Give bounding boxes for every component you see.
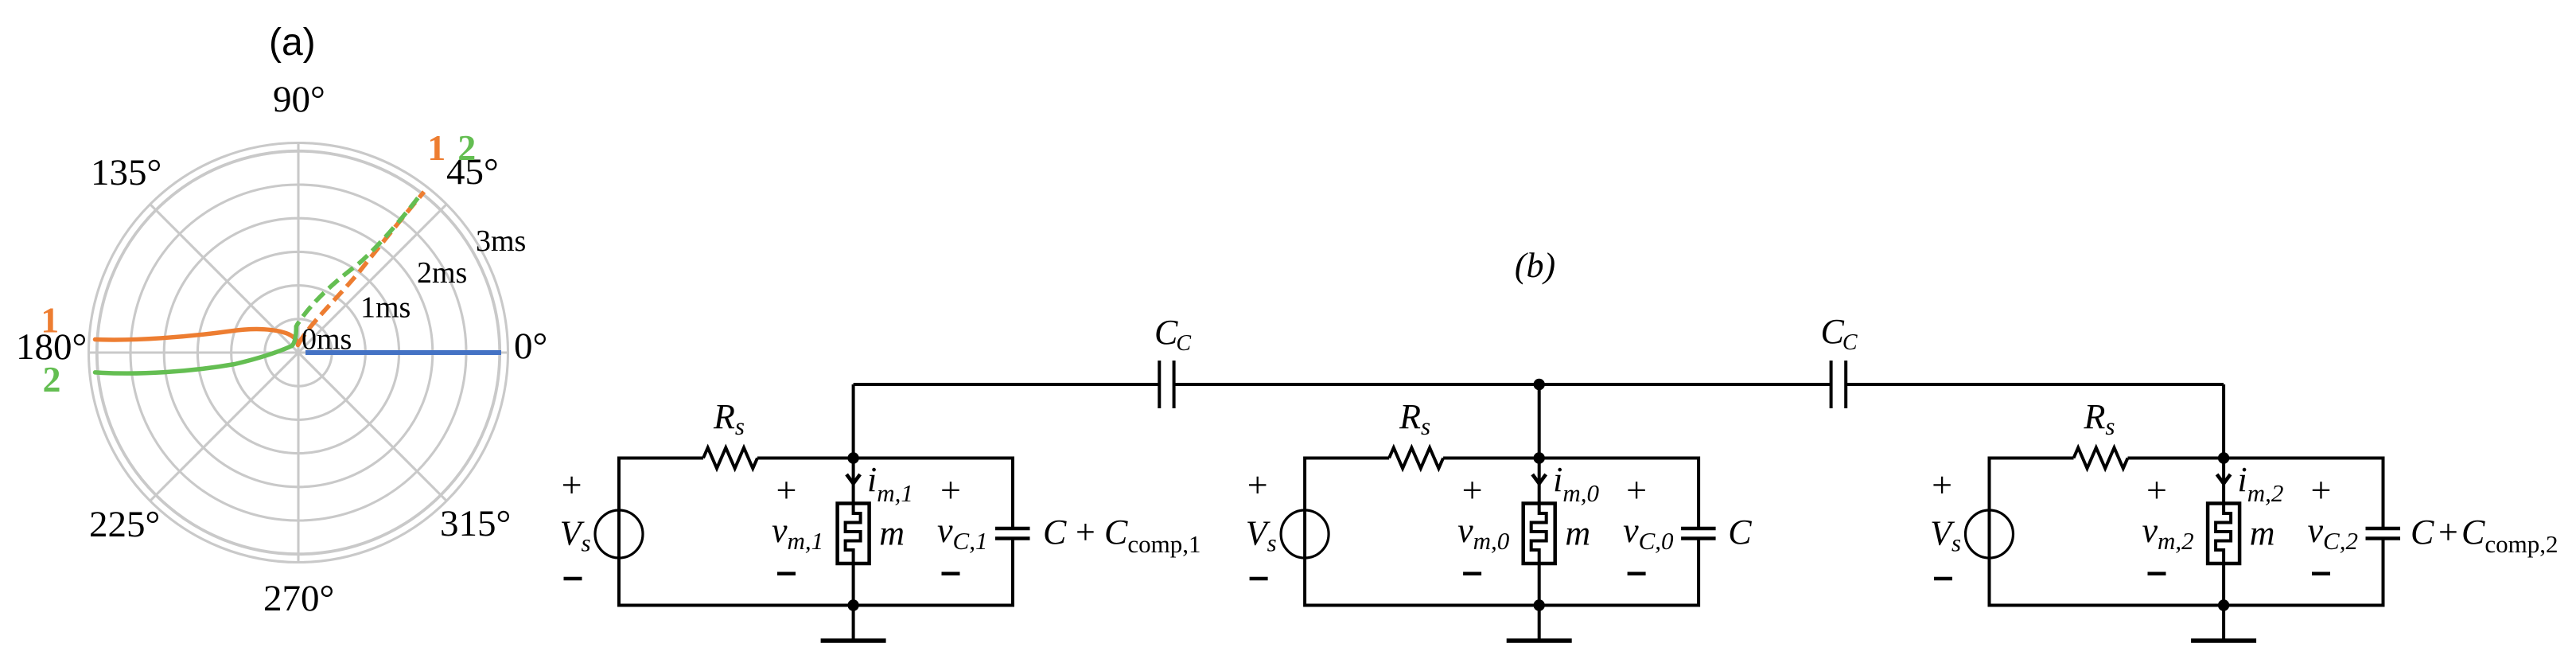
orange solid trajectory curve 1 [95, 329, 298, 345]
wire: memristor top stub circuit 2 [2222, 458, 2225, 505]
svg-text:270°: 270° [263, 578, 334, 619]
svg-text:3ms: 3ms [476, 224, 526, 258]
memristor M body circuit 1 [838, 504, 870, 564]
svg-text:(b): (b) [1515, 246, 1555, 285]
svg-text:225°: 225° [89, 504, 160, 545]
label minus of Vs circuit 0 [1250, 577, 1268, 581]
wire: top rail left segment circuit 1 [619, 457, 703, 460]
junction node dot bottom circuit 1 [847, 599, 858, 610]
wire: capacitor branch top circuit 1 [1011, 457, 1014, 529]
memristor M squiggle circuit 2 [2216, 505, 2231, 562]
wire: bottom rail circuit 2 [1990, 604, 2383, 607]
angle tick labels [16, 79, 547, 619]
radial time tick labels [302, 224, 526, 357]
green solid trajectory curve 2 [95, 326, 297, 373]
label minus of vC,2 [2312, 571, 2330, 575]
wire: memristor bottom stub circuit 1 [852, 563, 855, 606]
wire: top rail left segment circuit 0 [1305, 457, 1389, 460]
wire: memristor top stub circuit 1 [852, 458, 855, 505]
current arrow im,0 [1532, 474, 1546, 484]
coupling capacitor CC right plates [1830, 361, 1833, 408]
svg-text:+: + [1076, 513, 1095, 552]
capacitor plates circuit 2 [2366, 527, 2401, 531]
junction node dot top circuit 2 [2218, 452, 2229, 463]
svg-text:+: + [562, 465, 582, 505]
label minus of vm,2 [2148, 571, 2166, 575]
label minus of vC,1 [942, 571, 960, 575]
svg-text:90°: 90° [273, 79, 325, 120]
junction node dot bottom circuit 0 [1534, 599, 1545, 610]
current arrow im,2 [2217, 474, 2231, 484]
resistor Rs circuit 2 [2074, 448, 2128, 469]
voltage source Vs circuit 0 [1281, 510, 1329, 558]
wire: capacitor branch top circuit 2 [2382, 457, 2385, 529]
orange dashed trajectory curve 1 [298, 192, 425, 345]
wire: coupling drop circuit 1 [852, 384, 855, 458]
svg-text:2ms: 2ms [417, 256, 467, 290]
wire: coupling rail segment 1 [854, 383, 1160, 386]
resistor Rs circuit 0 [1389, 448, 1443, 469]
svg-text:m: m [1565, 513, 1590, 552]
memristor M squiggle circuit 0 [1531, 505, 1547, 562]
svg-text:2: 2 [43, 359, 61, 400]
svg-text:+: + [2311, 470, 2332, 510]
svg-text:1: 1 [427, 127, 446, 168]
voltage source Vs circuit 1 [595, 510, 643, 558]
resistor Rs circuit 1 [703, 448, 757, 469]
svg-text:C: C [1728, 513, 1752, 552]
wire: capacitor branch bottom circuit 1 [1011, 539, 1014, 607]
wire: capacitor branch top circuit 0 [1697, 457, 1700, 529]
svg-text:135°: 135° [91, 152, 161, 193]
svg-text:+: + [1932, 465, 1952, 505]
svg-text:+: + [1626, 470, 1647, 510]
coupling capacitor CC left plates [1158, 361, 1161, 408]
green dashed trajectory curve 2 [297, 193, 422, 326]
junction dot on coupling rail at circuit 0 [1534, 379, 1545, 390]
wire: capacitor branch bottom circuit 2 [2382, 539, 2385, 607]
ground bar circuit 0 [1507, 638, 1572, 643]
wire: top rail right segment circuit 2 [2128, 457, 2383, 460]
ground stub circuit 2 [2222, 606, 2225, 641]
svg-text:+: + [940, 470, 961, 510]
junction node dot bottom circuit 2 [2218, 599, 2229, 610]
svg-text:1ms: 1ms [360, 291, 411, 324]
capacitor plates circuit 0 [1681, 527, 1716, 531]
svg-text:C: C [1043, 513, 1067, 552]
svg-text:2: 2 [457, 127, 476, 168]
wire: top rail right segment circuit 1 [757, 457, 1013, 460]
svg-text:0ms: 0ms [302, 323, 352, 357]
junction node dot top circuit 1 [847, 452, 858, 463]
svg-text:m: m [2250, 513, 2275, 552]
svg-text:1: 1 [41, 299, 59, 340]
capacitor plates circuit 1 [995, 527, 1030, 531]
ground bar circuit 1 [821, 638, 886, 643]
svg-text:(a): (a) [269, 21, 316, 64]
label minus of vC,0 [1628, 571, 1646, 575]
polar grid spokes [89, 143, 508, 563]
label minus of vm,0 [1463, 571, 1481, 575]
polar grid rings [89, 143, 508, 563]
ground stub circuit 0 [1538, 606, 1541, 641]
wire: capacitor branch bottom circuit 0 [1697, 539, 1700, 607]
wire: memristor bottom stub circuit 2 [2222, 563, 2225, 606]
svg-text:C: C [2411, 513, 2434, 552]
label minus of vm,1 [777, 571, 796, 575]
svg-text:m: m [879, 513, 905, 552]
ground stub circuit 1 [852, 606, 855, 641]
svg-text:315°: 315° [440, 503, 511, 544]
memristor M body circuit 0 [1523, 504, 1555, 564]
svg-text:+: + [1462, 470, 1483, 510]
wire: left rail circuit 2 [1988, 457, 1991, 607]
label minus of Vs circuit 2 [1934, 577, 1952, 581]
wire: bottom rail circuit 0 [1305, 604, 1699, 607]
wire: coupling rail segment 2 [1174, 383, 1831, 386]
wire: coupling drop circuit 0 [1538, 384, 1541, 458]
wire: top rail right segment circuit 0 [1443, 457, 1699, 460]
wire: left rail circuit 1 [617, 457, 621, 607]
voltage source Vs circuit 2 [1966, 510, 2014, 558]
svg-text:+: + [2146, 470, 2167, 510]
junction node dot top circuit 0 [1534, 452, 1545, 463]
svg-text:+: + [776, 470, 797, 510]
wire: bottom rail circuit 1 [619, 604, 1013, 607]
svg-text:0°: 0° [514, 326, 547, 367]
svg-text:+: + [2438, 513, 2458, 552]
blue 0-degree reference line [305, 350, 501, 355]
wire: coupling rail segment 3 [1846, 383, 2224, 386]
wire: memristor bottom stub circuit 0 [1538, 563, 1541, 606]
current arrow im,1 [846, 474, 860, 484]
memristor M body circuit 2 [2208, 504, 2239, 564]
label minus of Vs circuit 1 [564, 577, 582, 581]
wire: top rail left segment circuit 2 [1990, 457, 2074, 460]
wire: coupling drop circuit 2 [2222, 384, 2225, 458]
ground bar circuit 2 [2191, 638, 2256, 643]
wire: memristor top stub circuit 0 [1538, 458, 1541, 505]
memristor M squiggle circuit 1 [846, 505, 861, 562]
svg-text:+: + [1247, 465, 1268, 505]
wire: left rail circuit 0 [1303, 457, 1306, 607]
